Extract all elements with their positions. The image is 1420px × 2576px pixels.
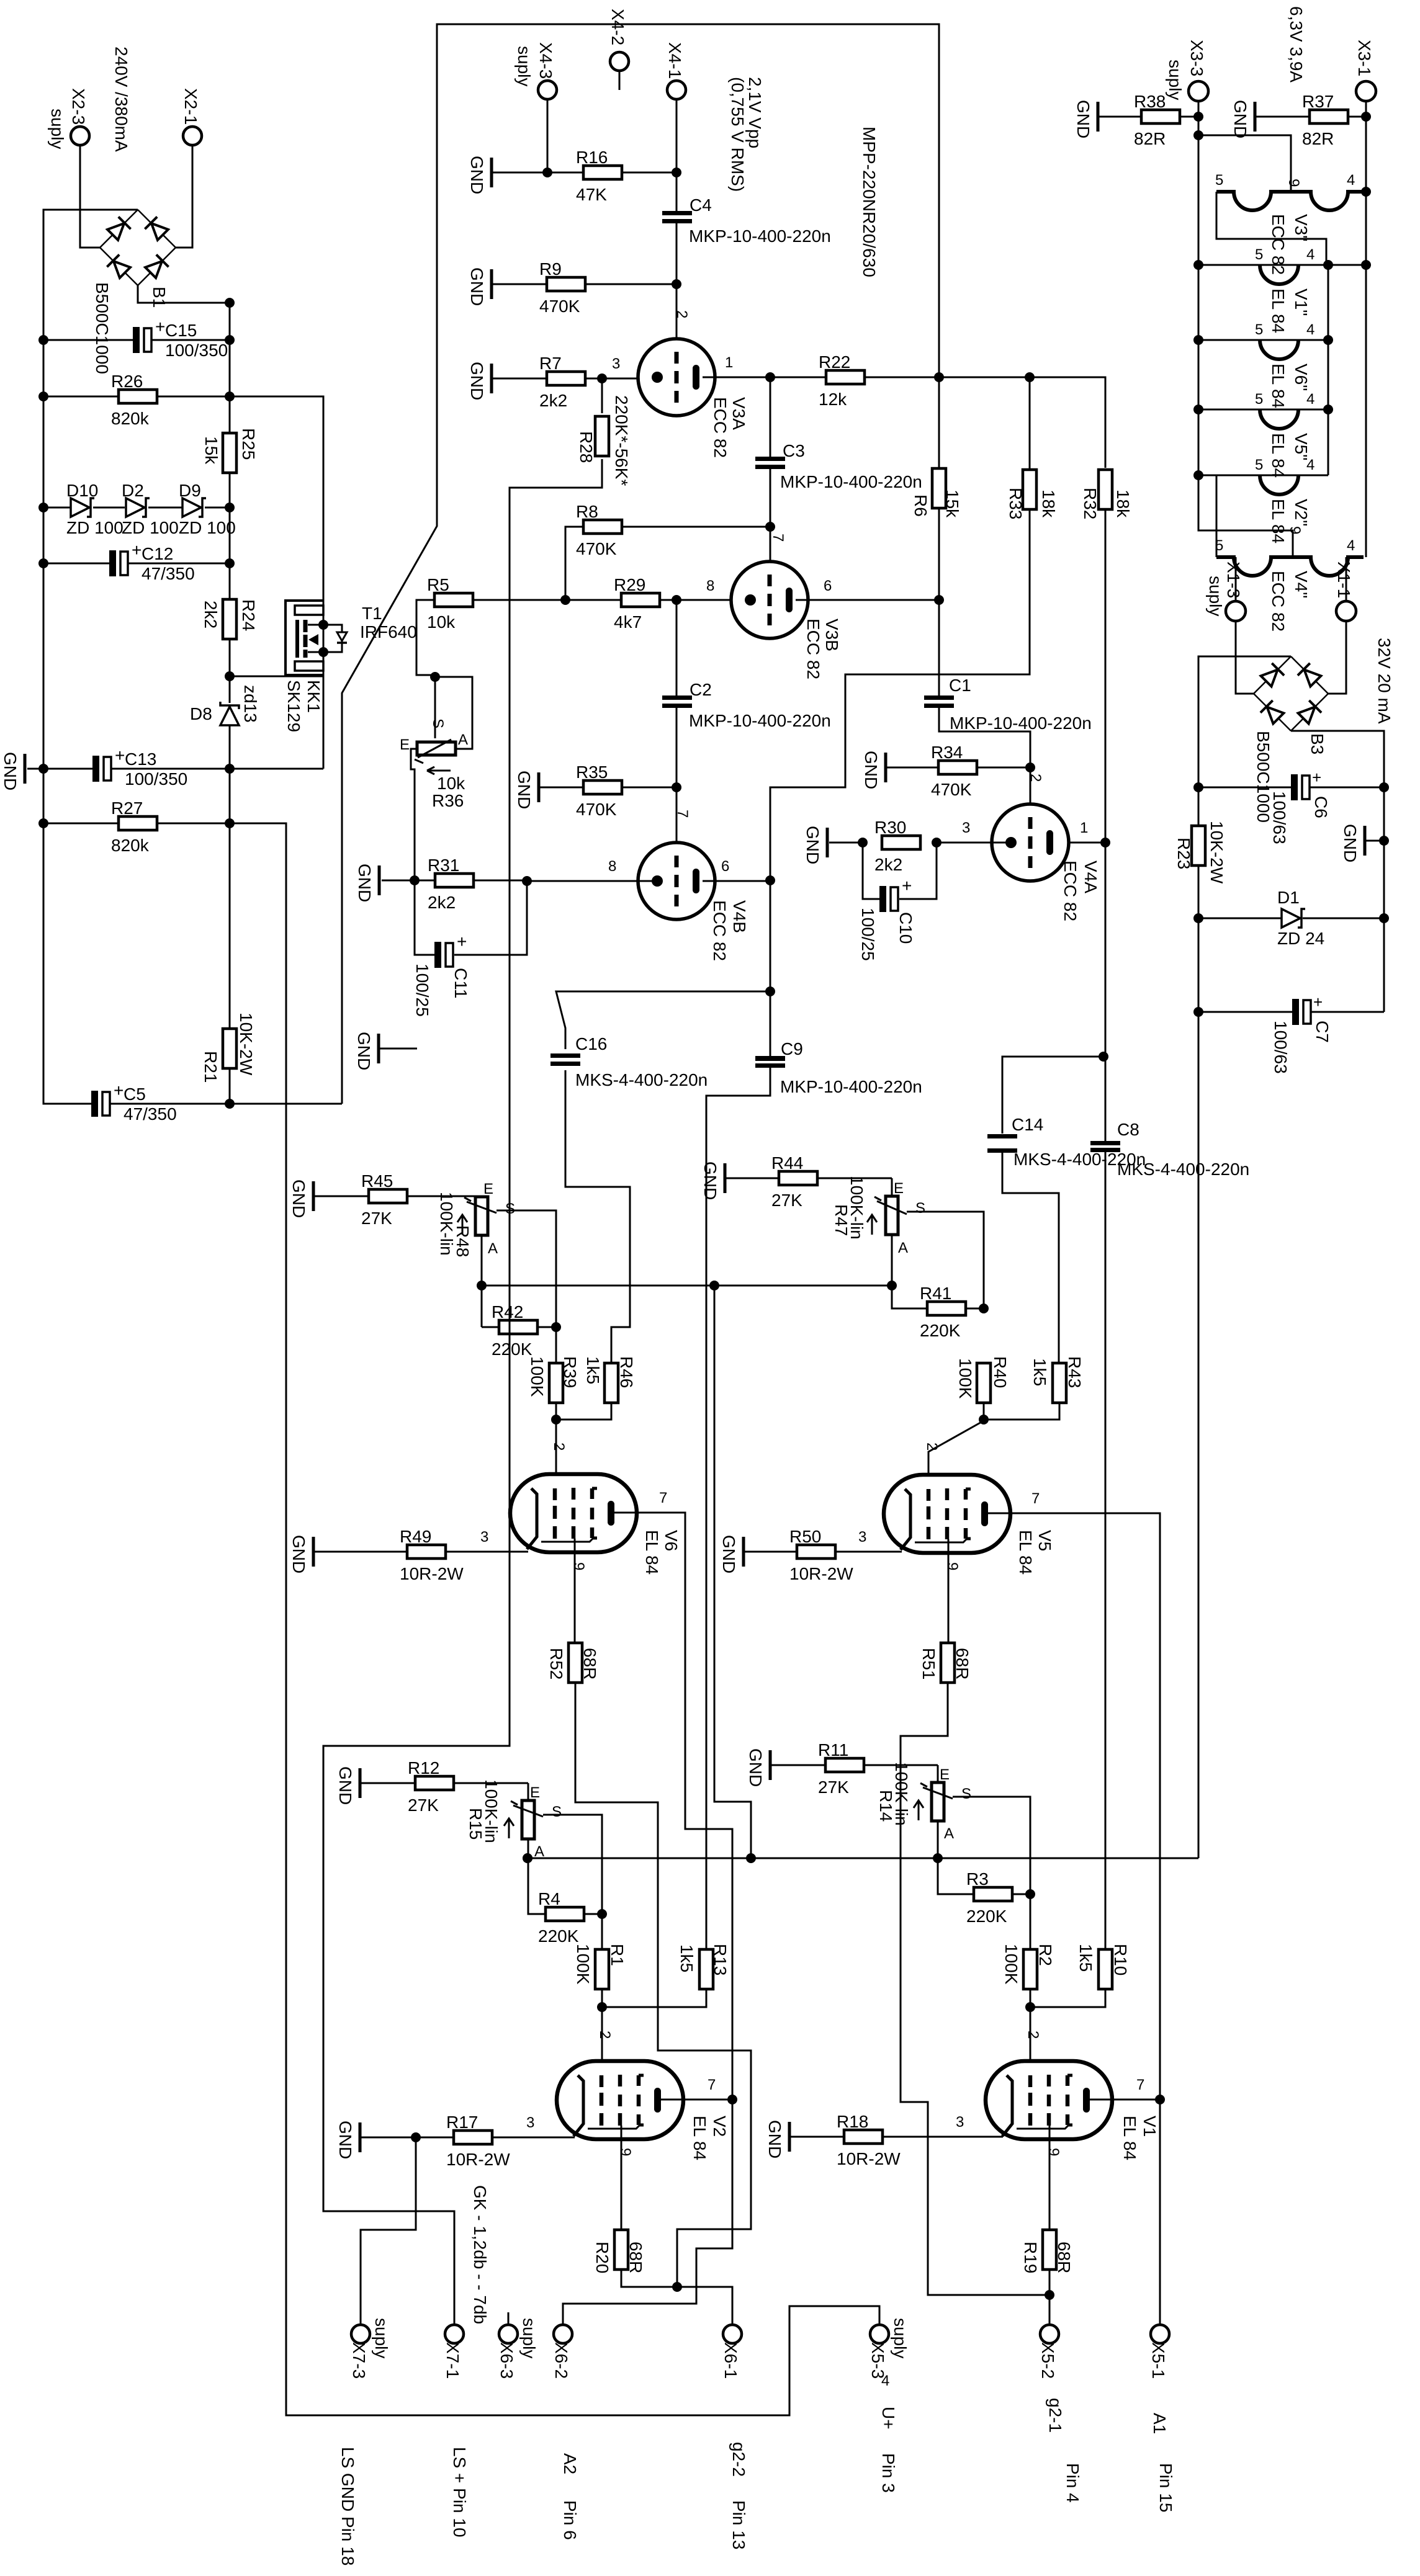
svg-text:R13: R13 xyxy=(711,1944,730,1975)
svg-text:S: S xyxy=(505,1201,515,1217)
capacitor C12 47/350 xyxy=(43,563,110,565)
svg-text:5: 5 xyxy=(1255,391,1263,408)
svg-text:100/25: 100/25 xyxy=(413,964,432,1017)
connector X3-3 xyxy=(1189,81,1208,101)
wire R15 A to bus and R4 xyxy=(528,1838,546,1914)
svg-text:R31: R31 xyxy=(428,856,459,875)
svg-text:3: 3 xyxy=(962,820,970,836)
svg-text:68R: 68R xyxy=(953,1648,972,1679)
svg-text:7: 7 xyxy=(674,810,691,818)
svg-text:220K: 220K xyxy=(492,1339,532,1359)
svg-text:MKS-4-400-220n: MKS-4-400-220n xyxy=(575,1070,708,1089)
svg-text:100K: 100K xyxy=(528,1356,547,1397)
svg-text:C14: C14 xyxy=(1012,1115,1043,1134)
wire X2-1 to bridge B1 xyxy=(176,145,192,248)
connector X6-3 xyxy=(508,2312,510,2325)
capacitor C8 MKS-4-400-220n xyxy=(1090,1141,1120,1145)
svg-text:EL 84: EL 84 xyxy=(1016,1530,1035,1575)
svg-text:C6: C6 xyxy=(1311,796,1331,818)
wire R48 A down xyxy=(481,1235,483,1327)
svg-text:ECC 82: ECC 82 xyxy=(710,900,729,961)
svg-text:R49: R49 xyxy=(400,1527,431,1546)
capacitor C3 MKP-10-400-220n xyxy=(770,377,771,457)
svg-text:8: 8 xyxy=(608,858,616,875)
svg-text:C1: C1 xyxy=(949,676,971,695)
wire V3'' pin5 jog to V1'' row xyxy=(1216,192,1326,265)
svg-text:X5-1: X5-1 xyxy=(1149,2342,1168,2379)
svg-text:R21: R21 xyxy=(201,1051,220,1083)
svg-text:E: E xyxy=(483,1181,493,1197)
svg-text:R50: R50 xyxy=(789,1527,821,1546)
heater V2'' EL 84 row xyxy=(1198,475,1328,476)
potentiometer R14 100K-lin xyxy=(937,1765,939,1782)
resistor R16 47K xyxy=(490,158,493,187)
svg-text:R48: R48 xyxy=(453,1225,472,1257)
svg-text:MPP-220NR20/630: MPP-220NR20/630 xyxy=(860,127,879,277)
svg-text:R39: R39 xyxy=(560,1356,580,1388)
wire top B+ branch right xyxy=(939,377,1105,468)
wire B+ riser to top rail xyxy=(342,24,939,1104)
svg-text:EL 84: EL 84 xyxy=(1120,2116,1139,2160)
svg-text:R16: R16 xyxy=(576,148,608,167)
svg-text:2k2: 2k2 xyxy=(874,855,902,874)
svg-text:(0,755 V RMS): (0,755 V RMS) xyxy=(728,77,747,192)
svg-text:V2: V2 xyxy=(710,2116,729,2137)
svg-text:EL 84: EL 84 xyxy=(1269,499,1288,543)
resistor R41 220K xyxy=(892,1286,927,1308)
capacitor C15 100/350 xyxy=(43,339,133,341)
svg-text:470K: 470K xyxy=(576,800,617,819)
wire R51 to g2-1 bus xyxy=(901,1683,1049,2295)
svg-text:2: 2 xyxy=(596,2031,613,2039)
svg-text:2: 2 xyxy=(1025,2031,1041,2039)
wire R15 S to R4 node xyxy=(543,1815,602,1914)
wire X3-1 rail xyxy=(1365,101,1367,557)
svg-text:18k: 18k xyxy=(1039,490,1058,518)
svg-text:4: 4 xyxy=(881,2373,889,2389)
svg-text:R44: R44 xyxy=(771,1153,803,1173)
wire heater mid rail xyxy=(1328,265,1329,475)
svg-text:220K: 220K xyxy=(920,1321,961,1340)
connector X4-2 xyxy=(610,52,629,71)
svg-text:6: 6 xyxy=(824,578,832,594)
resistor R50 10R-2W xyxy=(742,1537,745,1567)
svg-text:MKP-10-400-220n: MKP-10-400-220n xyxy=(689,226,831,246)
svg-text:ZD 100: ZD 100 xyxy=(66,518,124,537)
wire V5 grid pin 2 xyxy=(928,1421,984,1490)
svg-text:R51: R51 xyxy=(919,1648,938,1679)
svg-text:GND: GND xyxy=(861,751,881,789)
resistor R45 27K xyxy=(312,1181,315,1211)
resistor R37 82R xyxy=(1254,102,1257,132)
wire V3'' pin9 jog xyxy=(1198,135,1291,192)
svg-text:A1: A1 xyxy=(1150,2413,1169,2434)
svg-text:D1: D1 xyxy=(1277,888,1300,907)
wire V6 g2 pin 9 xyxy=(574,1539,576,1643)
svg-text:9: 9 xyxy=(617,2148,634,2156)
svg-text:2k2: 2k2 xyxy=(428,893,456,912)
svg-text:R3: R3 xyxy=(966,1869,989,1889)
svg-text:68R: 68R xyxy=(1054,2242,1074,2273)
connector X4-3 xyxy=(538,81,557,99)
resistor R3 220K xyxy=(974,1887,1012,1901)
svg-text:ZD 100: ZD 100 xyxy=(179,518,236,537)
svg-text:2k2: 2k2 xyxy=(539,391,567,410)
svg-text:R11: R11 xyxy=(818,1740,848,1760)
svg-text:R23: R23 xyxy=(1174,838,1193,869)
wire X1-1 to bridge B3 xyxy=(1346,557,1347,601)
svg-text:R14: R14 xyxy=(876,1790,896,1822)
resistor R40 100K xyxy=(977,1363,991,1403)
svg-text:R33: R33 xyxy=(1006,488,1025,519)
svg-text:+: + xyxy=(1313,993,1323,1011)
svg-text:+: + xyxy=(902,876,912,895)
svg-text:D8: D8 xyxy=(190,704,212,723)
svg-text:V1": V1" xyxy=(1292,288,1311,316)
svg-text:C2: C2 xyxy=(690,680,712,699)
bridge rectifier B3 B500C1000 xyxy=(1254,656,1291,694)
wire V4A anode pin 1 to R32 xyxy=(1069,842,1105,844)
wire feedback through R42 xyxy=(509,1320,511,1335)
svg-text:X2-3: X2-3 xyxy=(69,88,88,125)
svg-text:EL 84: EL 84 xyxy=(1269,433,1288,478)
heater V4'' ECC 82 xyxy=(1216,557,1291,576)
svg-text:C15: C15 xyxy=(165,321,197,340)
node right rail dots xyxy=(225,298,235,308)
svg-text:8: 8 xyxy=(706,578,714,594)
svg-text:ECC 82: ECC 82 xyxy=(1269,571,1288,632)
svg-text:LS + Pin 10: LS + Pin 10 xyxy=(450,2447,469,2538)
svg-text:X7-3: X7-3 xyxy=(349,2342,369,2379)
svg-text:V5: V5 xyxy=(1035,1530,1054,1551)
wire X3-3 rail xyxy=(1198,101,1293,557)
svg-text:C5: C5 xyxy=(124,1085,146,1104)
svg-text:GND: GND xyxy=(515,771,534,809)
svg-text:7: 7 xyxy=(659,1490,667,1506)
connector X2-3 xyxy=(71,127,89,145)
svg-text:MKP-10-400-220n: MKP-10-400-220n xyxy=(950,713,1092,733)
svg-text:100K: 100K xyxy=(573,1944,593,1985)
wire C9 down to R13 xyxy=(706,1068,770,1950)
svg-text:R17: R17 xyxy=(446,2113,478,2132)
wire V6 anode pin 7 xyxy=(611,1513,732,2100)
wire R33 staircase to V4B anode xyxy=(1029,377,1031,470)
svg-text:4: 4 xyxy=(1306,246,1314,263)
capacitor C11 100/25 xyxy=(415,880,435,955)
svg-text:15k: 15k xyxy=(943,490,962,518)
connector X5-2 xyxy=(1040,2325,1059,2343)
svg-text:+: + xyxy=(1312,768,1321,787)
svg-text:B500C1000: B500C1000 xyxy=(92,282,112,374)
connector X4-1 xyxy=(667,81,686,99)
svg-text:E: E xyxy=(530,1784,540,1801)
svg-text:V4": V4" xyxy=(1292,571,1311,598)
connector X5-1 xyxy=(1151,2325,1169,2343)
svg-text:R29: R29 xyxy=(614,575,645,594)
svg-text:suply: suply xyxy=(372,2318,391,2358)
capacitor C10 100/25 xyxy=(863,843,880,899)
svg-text:R47: R47 xyxy=(832,1204,851,1236)
svg-text:3: 3 xyxy=(526,2114,534,2131)
svg-text:5: 5 xyxy=(1255,457,1263,473)
svg-text:zd13: zd13 xyxy=(241,685,260,723)
svg-text:32V 20 mA: 32V 20 mA xyxy=(1375,638,1394,724)
svg-text:A: A xyxy=(944,1825,954,1842)
node C8 C14 junction xyxy=(1099,1052,1108,1062)
svg-text:E: E xyxy=(400,736,410,753)
svg-text:GND: GND xyxy=(467,156,487,194)
svg-text:7: 7 xyxy=(1136,2077,1144,2093)
svg-text:D9: D9 xyxy=(179,481,201,500)
tube V1 EL 84 xyxy=(986,2061,1112,2139)
svg-text:27K: 27K xyxy=(408,1796,439,1815)
wire gate node R24 to T1 xyxy=(230,676,323,678)
svg-text:R25: R25 xyxy=(239,428,258,460)
svg-text:3: 3 xyxy=(956,2114,964,2131)
resistor R9 470K xyxy=(490,269,493,299)
svg-text:EL 84: EL 84 xyxy=(1269,364,1288,408)
svg-text:+: + xyxy=(155,317,165,336)
svg-text:220K*-56K*: 220K*-56K* xyxy=(612,395,631,486)
wire V2 anode pin 7 xyxy=(658,2099,732,2101)
resistor R44 27K xyxy=(724,1163,727,1193)
svg-text:X2-1: X2-1 xyxy=(181,88,200,125)
svg-text:10K-2W: 10K-2W xyxy=(1207,821,1226,884)
svg-text:GND: GND xyxy=(1074,100,1093,138)
svg-text:KK1: KK1 xyxy=(304,680,323,713)
svg-text:2: 2 xyxy=(550,1442,567,1451)
svg-text:100/63: 100/63 xyxy=(1271,1021,1290,1074)
svg-text:C10: C10 xyxy=(896,912,915,944)
svg-text:R8: R8 xyxy=(576,502,598,521)
svg-text:MKP-10-400-220n: MKP-10-400-220n xyxy=(780,1077,922,1096)
svg-text:suply: suply xyxy=(1166,60,1185,100)
svg-text:GND: GND xyxy=(1341,824,1360,862)
wire R36 E down to R31 node xyxy=(411,749,417,880)
svg-text:2: 2 xyxy=(1027,774,1044,782)
svg-text:S: S xyxy=(552,1804,562,1820)
resistor R20 68R xyxy=(614,2230,628,2270)
svg-text:g2-2: g2-2 xyxy=(729,2442,748,2477)
svg-text:R40: R40 xyxy=(991,1356,1010,1388)
resistor R23 10K-2W xyxy=(1192,826,1205,865)
svg-text:GND: GND xyxy=(336,2121,355,2159)
resistor R49 10R-2W xyxy=(312,1537,315,1567)
trimmer R36 10k xyxy=(434,677,436,738)
svg-text:X3-1: X3-1 xyxy=(1355,40,1374,76)
svg-text:MKS-4-400-220n: MKS-4-400-220n xyxy=(1117,1160,1249,1179)
transistor T1 IRF640 with heatsink KK1 SK129 xyxy=(285,601,323,675)
wire R20 to X6-1 junction xyxy=(621,2270,677,2287)
svg-text:X5-2: X5-2 xyxy=(1038,2342,1058,2379)
wire C8 branch to C14 xyxy=(1002,1057,1103,1134)
potentiometer R15 100K-lin xyxy=(528,1783,529,1800)
svg-text:EL 84: EL 84 xyxy=(690,2116,709,2160)
svg-text:ZD 100: ZD 100 xyxy=(122,518,179,537)
svg-text:R46: R46 xyxy=(617,1356,636,1388)
svg-text:9: 9 xyxy=(570,1562,587,1570)
svg-text:GK - 1,2db - - 7db: GK - 1,2db - - 7db xyxy=(470,2185,490,2324)
wire V1 anode to X5-1 xyxy=(1159,2100,1161,2325)
svg-text:ECC 82: ECC 82 xyxy=(1061,861,1080,921)
svg-text:+: + xyxy=(457,932,467,951)
svg-text:47/350: 47/350 xyxy=(142,564,195,583)
svg-text:V3B: V3B xyxy=(822,619,842,651)
wire R52 to g2 bus xyxy=(575,1683,751,2287)
svg-text:B1: B1 xyxy=(150,287,169,308)
svg-text:GND: GND xyxy=(289,1535,308,1573)
svg-text:S: S xyxy=(915,1200,925,1217)
svg-text:R18: R18 xyxy=(837,2112,868,2131)
resistor R26 820k xyxy=(43,396,119,398)
zener diode D1 ZD 24 xyxy=(1198,918,1282,919)
svg-text:10k: 10k xyxy=(437,774,465,793)
svg-text:C12: C12 xyxy=(142,544,173,563)
capacitor C14 MKS-4-400-220n xyxy=(987,1134,1017,1138)
wire R14 S to R3 node xyxy=(953,1797,1030,1894)
resistor R10 1k5 xyxy=(1099,1949,1112,1989)
svg-text:82R: 82R xyxy=(1302,129,1334,148)
resistor R52 68R xyxy=(568,1643,582,1683)
svg-text:1k5: 1k5 xyxy=(1030,1358,1049,1386)
svg-text:suply: suply xyxy=(515,46,534,86)
wire B3 top to minus rail xyxy=(1198,656,1291,826)
capacitor C13 100/350 xyxy=(24,754,27,784)
wire missing segments xyxy=(938,377,940,468)
svg-text:GND: GND xyxy=(355,864,374,902)
resistor R18 10R-2W xyxy=(788,2122,791,2152)
wire V3'' pin4 to right rail xyxy=(1361,187,1371,197)
svg-text:R9: R9 xyxy=(539,259,562,279)
svg-text:Pin 4: Pin 4 xyxy=(1063,2463,1082,2503)
svg-text:5: 5 xyxy=(1215,172,1223,189)
svg-text:9: 9 xyxy=(1285,179,1302,187)
potentiometer R48 100K-lin xyxy=(481,1196,483,1197)
svg-text:2k2: 2k2 xyxy=(201,601,220,628)
zener diode D9 ZD 100 xyxy=(205,507,230,509)
wire X4-3 down xyxy=(547,99,549,172)
svg-text:X1-1: X1-1 xyxy=(1334,561,1354,598)
heater V1'' EL 84 row xyxy=(1198,264,1366,266)
svg-text:4: 4 xyxy=(1347,172,1355,189)
bridge rectifier B1 B500C1000 xyxy=(100,210,138,248)
svg-text:1k5: 1k5 xyxy=(583,1356,603,1384)
capacitor C6 100/63 xyxy=(1198,787,1291,789)
svg-text:R42: R42 xyxy=(492,1302,523,1322)
svg-text:GND: GND xyxy=(1,752,20,790)
capacitor C2 MKP-10-400-220n xyxy=(676,600,678,696)
wire B1 top to left rail xyxy=(43,210,138,1104)
svg-text:4: 4 xyxy=(1347,537,1355,554)
svg-text:LS GND Pin 18: LS GND Pin 18 xyxy=(338,2447,357,2565)
svg-text:MKP-10-400-220n: MKP-10-400-220n xyxy=(780,472,922,491)
resistor R8 470K xyxy=(622,526,770,528)
resistor R5 10k xyxy=(434,593,473,607)
svg-text:X7-1: X7-1 xyxy=(443,2342,462,2379)
svg-text:GND: GND xyxy=(467,267,487,306)
resistor R25 15k xyxy=(229,432,231,434)
svg-text:X4-1: X4-1 xyxy=(665,42,685,79)
svg-text:6: 6 xyxy=(721,858,729,875)
svg-text:g2-1: g2-1 xyxy=(1046,2398,1065,2433)
svg-text:R43: R43 xyxy=(1065,1356,1084,1388)
svg-text:7: 7 xyxy=(1031,1490,1040,1507)
wire R19 to X5-2 xyxy=(1049,2270,1051,2325)
tube V5 EL 84 xyxy=(884,1475,1010,1553)
wire GK bus xyxy=(482,1285,892,1287)
wire X2-3 to bridge B1 xyxy=(80,145,100,248)
svg-text:100K: 100K xyxy=(1002,1944,1021,1985)
svg-text:+: + xyxy=(115,746,125,765)
svg-text:R28: R28 xyxy=(577,431,596,463)
svg-text:U+: U+ xyxy=(879,2407,898,2430)
connector X6-1 xyxy=(723,2325,742,2343)
svg-text:V6: V6 xyxy=(662,1530,681,1551)
wire X1-3 to bridge B3 xyxy=(1235,557,1237,601)
zener diode D10 ZD 100 xyxy=(43,507,70,509)
resistor R19 68R xyxy=(1043,2230,1056,2270)
resistor R6 15k xyxy=(932,468,946,508)
potentiometer R47 100K-lin xyxy=(891,1178,893,1196)
svg-text:1: 1 xyxy=(725,354,733,371)
wire B3 bottom to plus rail xyxy=(1291,731,1384,1012)
svg-text:68R: 68R xyxy=(580,1648,600,1679)
svg-text:E: E xyxy=(894,1180,904,1197)
connector X3-1 xyxy=(1356,81,1376,101)
resistor R4 220K xyxy=(546,1907,584,1921)
svg-text:9: 9 xyxy=(944,1562,961,1570)
svg-text:D10: D10 xyxy=(66,481,98,500)
svg-text:X3-3: X3-3 xyxy=(1187,40,1207,76)
resistor R13 1k5 xyxy=(699,1949,713,1989)
svg-text:MKP-10-400-220n: MKP-10-400-220n xyxy=(689,711,831,730)
svg-text:R6: R6 xyxy=(911,494,930,517)
svg-text:GND: GND xyxy=(336,1766,355,1805)
resistor R51 68R xyxy=(941,1643,955,1683)
resistor R21 10K-2W xyxy=(223,1029,236,1068)
svg-text:X1-3: X1-3 xyxy=(1224,561,1243,598)
wire V1 grid pin 2 xyxy=(1030,2007,1031,2076)
svg-text:R19: R19 xyxy=(1021,2242,1040,2273)
svg-text:C3: C3 xyxy=(783,441,805,460)
svg-text:R4: R4 xyxy=(538,1889,560,1908)
wire V4B pin 8 xyxy=(527,880,653,882)
svg-text:GND: GND xyxy=(701,1161,720,1200)
svg-text:100/63: 100/63 xyxy=(1270,791,1289,844)
svg-text:18k: 18k xyxy=(1113,490,1133,518)
resistor R39 100K xyxy=(549,1363,563,1403)
svg-text:R27: R27 xyxy=(111,798,143,818)
svg-text:10R-2W: 10R-2W xyxy=(446,2150,510,2169)
tube V4B ECC 82 xyxy=(638,843,715,919)
zener diode D8 zd13 xyxy=(220,707,239,725)
svg-text:R24: R24 xyxy=(239,599,258,631)
svg-text:V6": V6" xyxy=(1292,364,1311,391)
svg-text:15k: 15k xyxy=(202,436,221,465)
svg-text:10R-2W: 10R-2W xyxy=(789,1564,853,1583)
svg-text:2,1V Vpp: 2,1V Vpp xyxy=(745,77,765,148)
svg-text:C13: C13 xyxy=(125,749,156,769)
svg-text:4: 4 xyxy=(1306,321,1314,338)
svg-text:B3: B3 xyxy=(1308,733,1327,754)
svg-text:7: 7 xyxy=(708,2077,716,2093)
svg-text:Pin 3: Pin 3 xyxy=(879,2453,898,2493)
svg-text:82R: 82R xyxy=(1134,129,1166,148)
svg-text:4k7: 4k7 xyxy=(614,612,642,632)
svg-text:R12: R12 xyxy=(408,1758,439,1778)
svg-text:C8: C8 xyxy=(1117,1120,1139,1139)
svg-text:4: 4 xyxy=(1306,391,1314,408)
